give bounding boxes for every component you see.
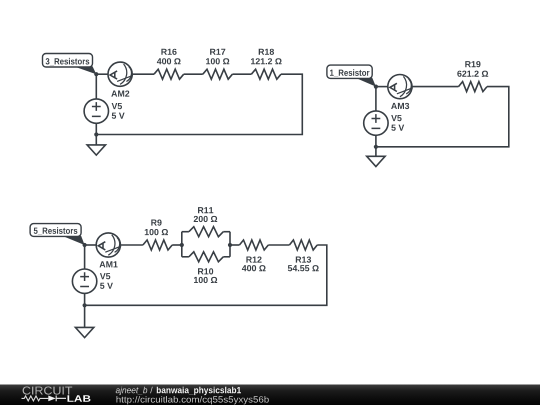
wire junction to ground (bottom)	[84, 305, 86, 327]
ammeter AM3	[388, 75, 413, 110]
wire R12 to R13	[268, 244, 289, 246]
node C junction dot	[83, 243, 87, 247]
footer url line	[117, 396, 269, 404]
resistor R16 400	[154, 49, 184, 79]
resistor R11 200 (top parallel)	[189, 207, 223, 237]
wire AM1 to R9	[120, 244, 142, 246]
net label 1_Resistor	[327, 65, 376, 87]
wire node down to V5 (right)	[375, 87, 377, 111]
ammeter AM2	[108, 62, 133, 97]
resistor R13 54.55	[288, 240, 319, 271]
wire top branch right	[223, 231, 230, 233]
ground (bottom)	[75, 327, 93, 337]
resistor R19 621.2	[457, 61, 488, 92]
wire junction to ground (right)	[375, 147, 377, 157]
wire V5 to junction	[95, 123, 97, 135]
wire R9 to parallel section	[172, 244, 182, 246]
voltage source V5 (bottom)	[72, 269, 113, 293]
wire node to AM1	[85, 244, 97, 246]
wire node down to V5 (bottom)	[84, 245, 86, 269]
resistor R18 121.2	[251, 49, 282, 79]
wire AM2 to R16	[132, 73, 154, 75]
parallel section left bus	[181, 232, 183, 257]
wire R13 right and return to junction	[85, 245, 327, 305]
node A junction dot	[94, 72, 98, 76]
parallel section right bus	[229, 232, 231, 257]
CircuitLab logo wordmark CIRCUIT	[23, 387, 73, 395]
wire bottom branch right	[223, 256, 230, 258]
wire R17 to R18	[232, 73, 251, 75]
wire R16 to R17	[184, 73, 203, 75]
junction dot bottom left	[94, 132, 98, 136]
wire node to AM3	[376, 86, 388, 88]
footer attribution line	[116, 387, 241, 395]
wire junction to ground	[95, 135, 97, 145]
wire parallel to R12	[230, 244, 239, 246]
resistor R17 100	[203, 49, 233, 79]
node B junction dot	[374, 85, 378, 89]
wire V5 to junction (right)	[375, 135, 377, 147]
ammeter AM1	[96, 233, 121, 268]
resistor R9 100	[143, 220, 172, 251]
wire bottom branch left	[182, 256, 189, 258]
wire node to AM2	[96, 73, 108, 75]
wire V5 to junction (bottom)	[84, 293, 86, 305]
resistor R12 400	[239, 240, 268, 271]
wire node down to V5	[95, 74, 97, 99]
net label 5_Resistors	[30, 224, 85, 245]
logo resistor-diode symbol	[22, 396, 67, 402]
footer bar	[0, 385, 540, 405]
parallel right junction dot	[228, 243, 232, 247]
junction dot bottom right circuit	[374, 145, 378, 149]
wire AM3 to R19	[412, 86, 458, 88]
resistor R10 100 (bottom parallel)	[189, 252, 223, 283]
voltage source V5 (top-right)	[364, 111, 405, 135]
ground (top-right)	[367, 156, 385, 166]
net label 3_Resistors	[43, 54, 97, 75]
wire top branch left	[182, 231, 189, 233]
wire R18 right and return to junction	[96, 74, 302, 134]
junction dot bottom of circuit 3	[83, 303, 87, 307]
voltage source V5 (top-left)	[84, 99, 124, 123]
ground (top-left)	[87, 145, 105, 155]
logo wordmark LAB	[68, 395, 91, 402]
parallel left junction dot	[180, 243, 184, 247]
wire R19 right and return to junction	[376, 87, 509, 147]
